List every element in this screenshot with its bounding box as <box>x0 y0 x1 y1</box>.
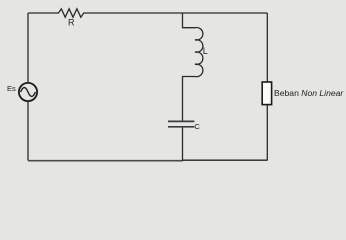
svg-text:R: R <box>68 18 75 28</box>
svg-text:C: C <box>194 122 200 131</box>
svg-text:Es: Es <box>7 84 16 93</box>
svg-text:Beban Non Linear: Beban Non Linear <box>274 88 344 98</box>
svg-text:L: L <box>203 46 208 56</box>
